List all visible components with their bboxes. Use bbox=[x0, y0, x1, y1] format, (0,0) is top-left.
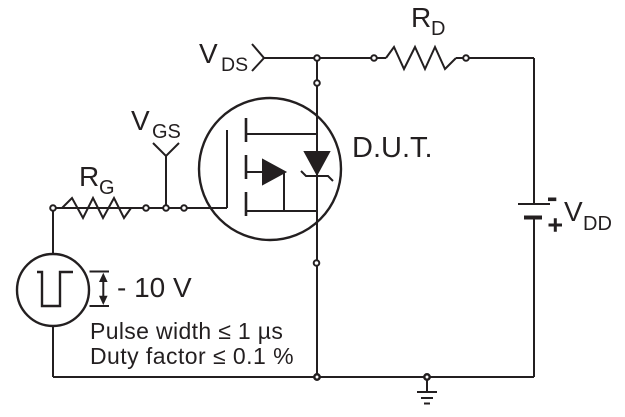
label R_G bbox=[79, 161, 115, 199]
wire drain vertical main line bbox=[316, 58, 318, 377]
node right of V_GS tap bbox=[181, 205, 187, 211]
transistor Q1 channel dashed line bbox=[245, 118, 248, 216]
svg-text:G: G bbox=[99, 177, 115, 199]
svg-text:DS: DS bbox=[221, 54, 248, 76]
svg-text:D: D bbox=[431, 18, 445, 40]
wire pulse generator top lead bbox=[52, 208, 54, 254]
node on drain vertical below top wire bbox=[314, 80, 320, 86]
svg-text:DD: DD bbox=[583, 213, 612, 235]
svg-text:Pulse width ≤ 1 µs: Pulse width ≤ 1 µs bbox=[90, 318, 283, 344]
transistor Q1 body bar with substrate arrow bbox=[246, 160, 285, 211]
svg-text:GS: GS bbox=[152, 121, 181, 143]
probe V_DS chevron bbox=[252, 44, 264, 71]
label V_DS bbox=[199, 38, 248, 76]
junction node source to bottom wire bbox=[314, 374, 319, 379]
node V_GS tap bbox=[163, 205, 169, 211]
wire gate horizontal from RG to gate bbox=[53, 207, 227, 209]
svg-text:V: V bbox=[564, 196, 583, 227]
wire pulse generator bottom lead bbox=[52, 326, 54, 377]
svg-text:Duty factor ≤ 0.1 %: Duty factor ≤ 0.1 % bbox=[90, 343, 294, 369]
ground symbol bbox=[417, 377, 437, 404]
resistor R_D right terminal node bbox=[463, 55, 469, 61]
resistor R_D bbox=[386, 47, 456, 69]
probe V_GS Y symbol and stem bbox=[153, 143, 179, 208]
battery V_DD plates bbox=[518, 204, 550, 218]
transistor Q1 drain bar bbox=[246, 133, 317, 135]
label duty factor note bbox=[90, 343, 294, 369]
junction node ground on bottom wire bbox=[424, 374, 429, 379]
pulse generator output terminal node bbox=[50, 205, 56, 211]
svg-text:V: V bbox=[131, 105, 150, 136]
label V_DD with polarity bbox=[548, 196, 612, 235]
transistor Q1 gate line bbox=[226, 130, 228, 208]
transistor Q1 source bar bbox=[246, 210, 317, 212]
label pulse width note bbox=[90, 318, 283, 344]
wire bottom horizontal bbox=[53, 376, 534, 378]
pulse generator negative pulse waveform bbox=[37, 272, 73, 306]
label V_GS bbox=[131, 105, 181, 143]
junction node on top wire at drain bbox=[314, 55, 320, 61]
dimension arrow for -10V amplitude bbox=[90, 272, 110, 307]
label R_D bbox=[411, 2, 445, 40]
svg-text:V: V bbox=[199, 38, 218, 69]
label -10V bbox=[117, 272, 192, 303]
body diode (zener style) on drain line bbox=[301, 152, 333, 181]
transistor D.U.T. envelope circle bbox=[199, 98, 341, 240]
wire right vertical to battery bbox=[533, 58, 535, 204]
node left of V_GS tap bbox=[143, 205, 149, 211]
wire top horizontal from VDS probe to RD and right corner bbox=[264, 57, 534, 59]
resistor R_D left terminal node bbox=[371, 55, 377, 61]
label D.U.T. bbox=[352, 132, 433, 164]
svg-text:R: R bbox=[411, 2, 431, 33]
resistor R_G bbox=[62, 198, 131, 218]
svg-text:D.U.T.: D.U.T. bbox=[352, 132, 433, 164]
node source lead below DUT bbox=[314, 260, 320, 266]
svg-text:R: R bbox=[79, 161, 99, 192]
svg-text:- 10 V: - 10 V bbox=[117, 272, 192, 303]
pulse generator circle bbox=[17, 254, 89, 326]
wire right vertical battery to bottom corner bbox=[533, 219, 535, 377]
